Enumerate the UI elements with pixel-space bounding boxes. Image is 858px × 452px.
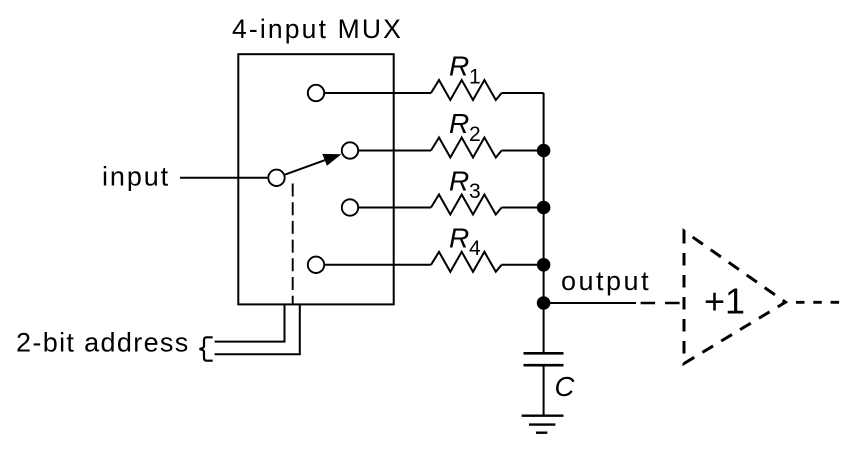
svg-text:output: output — [561, 266, 651, 296]
svg-text:R: R — [449, 223, 469, 254]
svg-text:4: 4 — [469, 237, 481, 260]
svg-text:R: R — [449, 166, 469, 197]
svg-text:R: R — [449, 108, 469, 139]
svg-text:+1: +1 — [704, 280, 745, 321]
svg-text:2: 2 — [469, 123, 481, 146]
svg-text:3: 3 — [469, 180, 481, 203]
svg-text:C: C — [555, 371, 575, 402]
svg-text:R: R — [449, 51, 469, 82]
svg-text:4-input MUX: 4-input MUX — [232, 14, 403, 44]
svg-text:1: 1 — [469, 66, 481, 89]
svg-text:2-bit address: 2-bit address — [16, 328, 190, 358]
svg-text:input: input — [102, 162, 170, 192]
